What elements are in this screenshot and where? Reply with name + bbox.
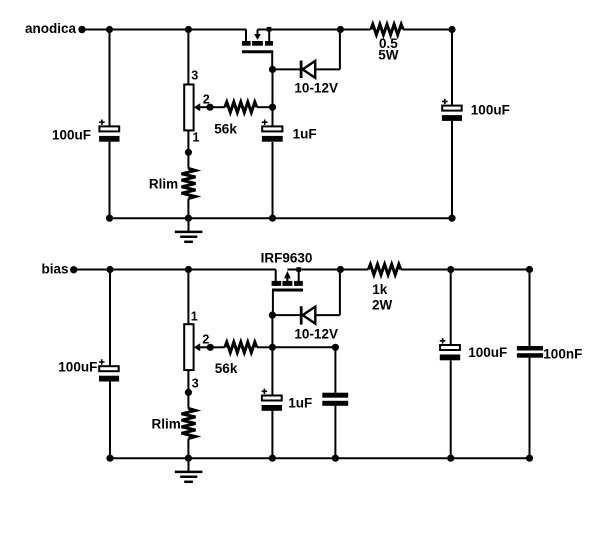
wire wiper row extension xyxy=(272,346,335,348)
junction bottom 1uF xyxy=(269,215,276,222)
pin label 1 (pot P1) xyxy=(193,130,200,144)
wire pot pin3 xyxy=(187,30,189,85)
junction zener top xyxy=(337,26,344,33)
wire output 100uF vertical bias xyxy=(450,270,452,459)
label 1uF (bias) xyxy=(288,396,312,411)
junction bottom ground xyxy=(185,215,192,222)
junction 56k node xyxy=(269,104,276,111)
wire top rail middle (Q1 to R 0.5) xyxy=(258,29,341,31)
net label bias xyxy=(41,262,68,277)
resistor 1k 2W (bias output) xyxy=(340,264,529,274)
pin label 2 (pot P1) xyxy=(203,92,210,106)
svg-text:100uF: 100uF xyxy=(468,345,507,360)
junction wiper node bias xyxy=(207,344,214,351)
junction bottom C1 xyxy=(106,215,113,222)
junction 100nF top xyxy=(526,266,533,273)
junction bottom 100uF bias xyxy=(447,455,454,462)
junction bottom ceramic xyxy=(332,455,339,462)
svg-text:3: 3 xyxy=(192,377,199,391)
pin label 3 (pot P1) xyxy=(191,68,198,82)
capacitor 100uF (input, bias) xyxy=(99,359,119,381)
junction wiper node xyxy=(206,104,213,111)
wire Rlim to ground rail xyxy=(187,199,189,219)
svg-text:bias: bias xyxy=(41,262,68,277)
potentiometer P1 body xyxy=(184,85,193,131)
svg-text:56k: 56k xyxy=(214,122,237,137)
svg-text:10-12V: 10-12V xyxy=(294,80,338,95)
pot P1 wiper arrow xyxy=(194,103,210,111)
MOSFET Q2 IRF9630 (pass transistor, bias) xyxy=(272,267,303,315)
terminal node anodica xyxy=(78,26,85,33)
label input 100uF (bias) xyxy=(58,360,97,375)
svg-text:10-12V: 10-12V xyxy=(294,327,338,342)
label IRF9630 xyxy=(261,251,313,266)
capacitor ceramic (bias, unlabeled) xyxy=(322,393,348,406)
junction pot top xyxy=(185,26,192,33)
wire pot pin3 to Rlim bias xyxy=(187,370,189,408)
ground (anodica) xyxy=(175,218,203,242)
pin label 3 (pot P2) xyxy=(192,377,199,391)
capacitor 100nF xyxy=(517,346,543,358)
svg-text:1k: 1k xyxy=(372,282,388,297)
junction output bottom right xyxy=(448,215,455,222)
label C1 100uF xyxy=(52,127,91,142)
junction pot-Rlim xyxy=(185,149,192,156)
svg-text:1uF: 1uF xyxy=(288,396,312,411)
wire gate node vertical xyxy=(272,69,274,218)
junction C bias top xyxy=(106,266,113,273)
capacitor 1uF (anodica) xyxy=(262,120,283,142)
wire output right vertical xyxy=(451,30,453,219)
label Rlim xyxy=(149,177,178,192)
svg-text:Rlim: Rlim xyxy=(149,177,178,192)
junction output top right xyxy=(448,26,455,33)
svg-text:100nF: 100nF xyxy=(543,346,582,361)
resistor Rlim (anodica) xyxy=(182,169,196,199)
label 56k xyxy=(214,122,237,137)
svg-text:1uF: 1uF xyxy=(293,126,317,141)
wire pot bias pin1 xyxy=(187,270,189,325)
capacitor 100uF (output, bias) xyxy=(440,338,460,360)
junction pot bias top xyxy=(185,266,192,273)
junction bottom 1uF bias xyxy=(269,455,276,462)
pin label 1 (pot P2) xyxy=(191,309,198,323)
junction zener top bias xyxy=(337,266,344,273)
svg-text:2W: 2W xyxy=(372,298,393,313)
wire 100nF vertical xyxy=(529,270,531,459)
capacitor C1 100uF (input, anodica) xyxy=(99,120,119,142)
wire ceramic cap vertical xyxy=(334,347,336,458)
wire gate node vertical bias xyxy=(271,315,273,458)
label 2W xyxy=(372,298,393,313)
svg-text:100uF: 100uF xyxy=(471,102,510,117)
label 100nF xyxy=(543,346,582,361)
potentiometer P2 body xyxy=(184,324,193,370)
junction ceramic cap top xyxy=(332,344,339,351)
label 1k xyxy=(372,282,388,297)
svg-text:anodica: anodica xyxy=(25,21,77,36)
svg-text:1: 1 xyxy=(193,130,200,144)
terminal node bias xyxy=(70,266,77,273)
svg-text:5W: 5W xyxy=(378,47,399,62)
pin label 2 (pot P2) xyxy=(202,332,209,346)
junction bottom C bias xyxy=(106,455,113,462)
wire pot pin1 to Rlim xyxy=(187,130,189,168)
wire C1 vertical xyxy=(109,30,111,219)
label 56k (bias) xyxy=(215,361,238,376)
svg-text:Rlim: Rlim xyxy=(152,417,181,432)
svg-text:IRF9630: IRF9630 xyxy=(261,251,313,266)
ground (bias) xyxy=(175,458,203,482)
wire top rail left (anodica input) xyxy=(84,29,246,31)
resistor 0.5 5W (anodica output) xyxy=(340,24,452,34)
junction gate node xyxy=(269,66,276,73)
wire Rlim bias to ground rail xyxy=(187,439,189,459)
wire top rail left (bias input) xyxy=(76,269,276,271)
junction bottom 100nF xyxy=(526,455,533,462)
zener D2 10-12V (bias) xyxy=(272,270,340,325)
wire top rail middle (Q2 to R 1k) xyxy=(287,269,340,271)
junction C1 top xyxy=(106,26,113,33)
label 10-12V (bias) xyxy=(294,327,338,342)
junction 56k node bias xyxy=(269,344,276,351)
label output 100uF (bias) xyxy=(468,345,507,360)
svg-text:56k: 56k xyxy=(215,361,238,376)
svg-text:100uF: 100uF xyxy=(52,127,91,142)
svg-text:3: 3 xyxy=(191,68,198,82)
MOSFET Q1 (pass transistor, anodica) xyxy=(242,27,273,70)
zener D1 10-12V (anodica) xyxy=(273,30,341,79)
capacitor 100uF (output, anodica) xyxy=(442,99,462,121)
capacitor 1uF (bias) xyxy=(262,389,282,411)
net label anodica xyxy=(25,21,77,36)
label 1uF (anodica) xyxy=(293,126,317,141)
junction gate node bias xyxy=(269,312,276,319)
label Rlim (bias) xyxy=(152,417,181,432)
label output 100uF (anodica) xyxy=(471,102,510,117)
svg-text:100uF: 100uF xyxy=(58,360,97,375)
junction output 100uF top bias xyxy=(447,266,454,273)
resistor 56k (bias) xyxy=(210,342,272,352)
label 10-12V (anodica) xyxy=(294,80,338,95)
label 5W xyxy=(378,47,399,62)
pot P2 wiper arrow xyxy=(194,343,211,351)
label 0.5 xyxy=(379,36,398,51)
junction pot-Rlim bias xyxy=(185,389,192,396)
wire C bias vertical xyxy=(109,270,111,459)
wire bottom rail (anodica) xyxy=(110,217,453,219)
svg-text:1: 1 xyxy=(191,309,198,323)
wire bottom rail (bias) xyxy=(110,457,530,459)
resistor 56k (anodica) xyxy=(210,102,273,112)
resistor Rlim (bias) xyxy=(182,409,196,439)
junction bottom ground bias xyxy=(185,455,192,462)
